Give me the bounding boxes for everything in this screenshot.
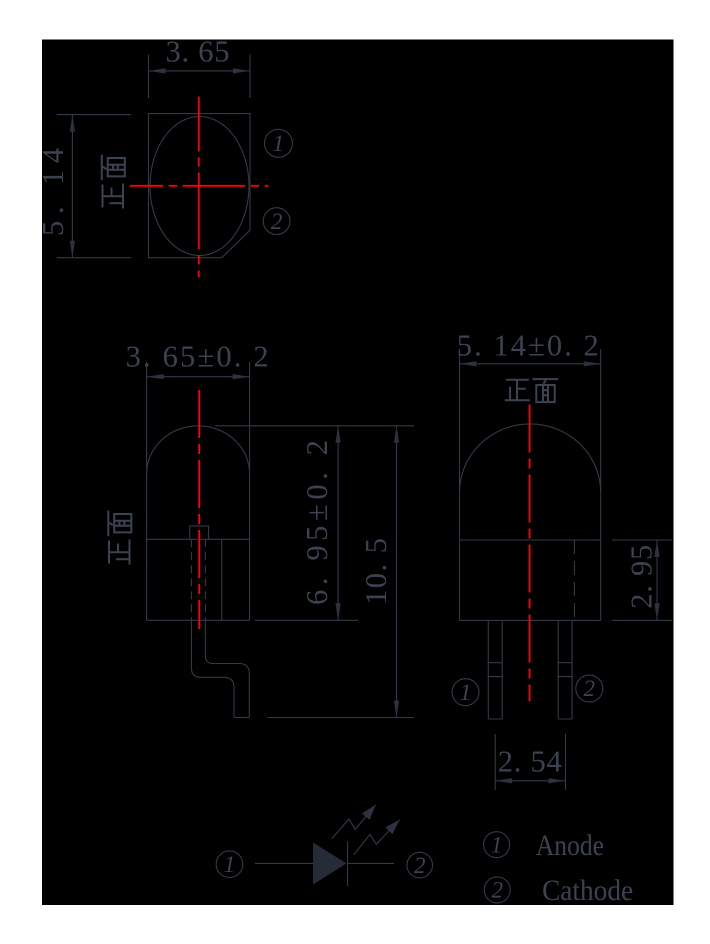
front view vertical centerline (529, 405, 531, 702)
3.65 arrows (149, 68, 166, 73)
dim 6.95 dimension line (337, 426, 339, 621)
CJK labels drawn as strokes (102, 155, 558, 565)
svg-text:1: 1 (491, 833, 503, 858)
front-view right lead tick marks (557, 663, 572, 677)
5.14+-0.2 arrows (460, 361, 477, 366)
front-view dome arc (460, 424, 601, 493)
side-view lead bottom cap (234, 717, 249, 719)
top-view body outline (chamfered rect) (149, 114, 251, 258)
symbol pin 2 balloon (407, 852, 433, 878)
front-view left lead tick marks (488, 663, 503, 677)
dim 5.14 dimension line (71, 115, 73, 258)
svg-text:2: 2 (414, 853, 426, 878)
anode wire (255, 862, 313, 864)
front-view left side + extension (459, 349, 461, 620)
svg-text:3. 65: 3. 65 (166, 35, 230, 69)
top view pin 1 balloon (264, 129, 292, 157)
front-view bottom line (460, 619, 601, 621)
dim 3.65 dimension line (149, 70, 251, 72)
side-view dome arc (147, 426, 250, 474)
side-view right side + extension (249, 362, 251, 620)
svg-text:3. 65±0. 2: 3. 65±0. 2 (126, 340, 269, 374)
10.5 arrows (394, 426, 399, 443)
red centerlines (130, 97, 530, 702)
light ray 1 zigzag (332, 805, 376, 839)
legend pin 2 balloon (484, 877, 510, 903)
2.95 arrows (654, 540, 659, 557)
dim 2.54 ext line left (494, 734, 496, 790)
side-view inner vertical line (221, 539, 223, 620)
top view label ZHENGMIAN (rotated) (102, 155, 125, 209)
dim 5.14 extension line top (57, 114, 132, 116)
svg-text:2: 2 (271, 209, 283, 234)
svg-text:1: 1 (273, 131, 285, 156)
dim 2.95 dimension line (656, 540, 658, 620)
top view pin 2 balloon (263, 208, 290, 235)
dim 2.95 ext line bottom (612, 619, 672, 621)
svg-text:Anode: Anode (536, 829, 604, 862)
side-view shoulder line (147, 538, 250, 540)
svg-text:2. 95: 2. 95 (625, 545, 659, 609)
ext line at lead bottom level (267, 717, 414, 719)
svg-text:1: 1 (460, 680, 472, 705)
6.95 arrows (336, 426, 341, 443)
3.65+-0.2 arrows (147, 374, 164, 379)
side-view left side + extension (146, 362, 148, 620)
side-view bent lead inner edge (205, 620, 249, 717)
legend pin 1 balloon (484, 832, 510, 858)
side view label ZHENGMIAN (rotated) (108, 511, 131, 565)
top view vertical centerline (198, 97, 200, 278)
side-view hidden lead left (dashed) (190, 539, 192, 620)
svg-text:10. 5: 10. 5 (359, 538, 393, 605)
dim 2.95 ext line top (612, 539, 672, 541)
dim 3.65+-0.2 dimension line (147, 376, 250, 378)
cathode bar (347, 841, 349, 886)
side view vertical centerline (198, 390, 200, 629)
front-view inner vertical line (dashed) (573, 540, 575, 620)
front view pin 2 balloon (576, 675, 603, 702)
front-view right lead (558, 620, 572, 719)
front-view right side + extension (600, 349, 602, 620)
dim 10.5 dimension line (396, 426, 398, 718)
circled digits (224, 131, 595, 903)
LED symbol triangle (313, 843, 347, 885)
dim 5.14 extension line bottom (57, 257, 132, 259)
dim 3.65 extension line right (249, 55, 251, 98)
front-view shoulder line (460, 539, 601, 541)
arrowheads (70, 68, 660, 884)
ext line at dome apex level (215, 425, 414, 427)
front view pin 1 balloon (452, 679, 479, 706)
top view horizontal centerline (130, 185, 269, 187)
svg-text:2: 2 (491, 878, 503, 903)
symbol pin 1 balloon (216, 851, 243, 878)
side-view lead notch box (190, 526, 209, 539)
top-view lens ellipse (150, 117, 249, 256)
svg-text:1: 1 (224, 852, 236, 877)
5.14 arrows (70, 115, 75, 132)
dim 2.54 ext line right (565, 734, 567, 790)
side-view bottom line (147, 619, 250, 621)
front-view left lead (488, 620, 502, 719)
dim 2.54 dimension line (495, 780, 565, 782)
side-view bent lead outer edge (191, 620, 234, 717)
cathode wire (348, 862, 395, 864)
side-view hidden lead right (dashed) (204, 539, 206, 620)
light ray 2 zigzag (354, 820, 400, 855)
front view label ZHENG (horizontal) (505, 380, 530, 401)
ext line at body bottom level (255, 619, 358, 621)
dim 3.65 extension line left (148, 55, 150, 98)
2.54 arrows (495, 778, 512, 783)
dim 5.14+-0.2 dimension line (460, 363, 601, 365)
svg-text:2. 54: 2. 54 (498, 745, 562, 779)
light ray arrowhead 2 (385, 816, 403, 834)
svg-text:Cathode: Cathode (542, 874, 633, 907)
svg-text:2: 2 (584, 676, 596, 701)
front view label MIAN (horizontal) (533, 379, 559, 402)
light ray arrowhead 1 (362, 802, 380, 820)
svg-text:5. 14±0. 2: 5. 14±0. 2 (457, 329, 599, 363)
